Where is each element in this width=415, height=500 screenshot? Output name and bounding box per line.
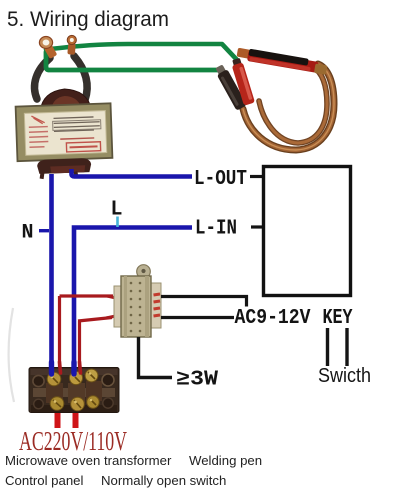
wire black tick L-IN to panel xyxy=(251,225,264,228)
wire green upper (left terminal to lower red pen) xyxy=(46,44,238,61)
wire red upper (terminal block to small transformer) xyxy=(60,296,114,371)
wire red stub right (mains) xyxy=(73,413,79,428)
wire blue tip into terminal 1 xyxy=(49,362,54,374)
welding pen upper (red rod with black sleeve) xyxy=(236,47,328,75)
svg-text:Swicth: Swicth xyxy=(318,364,371,387)
control panel box xyxy=(264,167,351,296)
wire red tip into terminal 1 xyxy=(60,362,61,373)
welding pen lower black xyxy=(214,63,248,110)
wire black AC9-12V upper (small transformer to label) xyxy=(161,297,247,307)
transformer T2 (small AC9-12V transformer photo) xyxy=(114,265,161,337)
svg-text:AC220V/110V: AC220V/110V xyxy=(19,426,127,456)
wire black tick L-OUT to panel xyxy=(250,175,264,178)
wire black left (transformer lead) xyxy=(35,58,50,99)
node N tick xyxy=(39,229,49,232)
welding pen lower red xyxy=(230,57,255,105)
wire black switch lead left xyxy=(326,328,329,366)
welding pen cable copper loop xyxy=(243,64,334,150)
svg-text:N: N xyxy=(22,222,34,245)
svg-text:Control panel: Control panel xyxy=(5,473,84,488)
wire blue N (vertical from transformer to terminal block) xyxy=(49,174,54,371)
wire blue tip into terminal 2 xyxy=(71,362,76,374)
ring terminal right xyxy=(67,35,76,54)
node L tick (cyan) xyxy=(116,217,119,228)
transformer T1 (microwave oven transformer photo) xyxy=(15,87,113,179)
faint ghost arc artifact xyxy=(9,308,14,402)
svg-text:Microwave oven transformer: Microwave oven transformer xyxy=(5,453,172,468)
wire green lower (terminal drop to lower black pen) xyxy=(46,52,222,70)
wire black right (transformer lead) xyxy=(74,56,87,100)
svg-text:L-IN: L-IN xyxy=(195,218,237,241)
svg-text:Normally open switch: Normally open switch xyxy=(101,473,226,488)
svg-text:5. Wiring diagram: 5. Wiring diagram xyxy=(7,7,169,31)
svg-text:L-OUT: L-OUT xyxy=(194,168,247,191)
ring terminal left xyxy=(39,37,57,59)
wire black 3W lead (small transformer bottom) xyxy=(139,337,173,378)
red pigtails into transformer pins xyxy=(106,296,118,318)
wire red tip into terminal 2 xyxy=(80,362,81,373)
wire red lower (terminal block to small transformer) xyxy=(78,318,112,372)
svg-text:KEY: KEY xyxy=(323,307,353,330)
svg-text:Welding pen: Welding pen xyxy=(189,453,262,468)
svg-text:≥3W: ≥3W xyxy=(176,369,218,392)
wire blue L-IN (horizontal + vertical down) xyxy=(74,228,192,372)
wire blue L-OUT (horizontal with stub from transformer) xyxy=(72,169,193,177)
svg-text:AC9-12V: AC9-12V xyxy=(235,307,311,330)
wire black switch lead right xyxy=(345,328,348,366)
terminal block TB1 xyxy=(29,368,119,413)
wire black AC9-12V lower (small transformer to label) xyxy=(161,316,234,319)
wire red stub left (mains) xyxy=(55,413,61,428)
